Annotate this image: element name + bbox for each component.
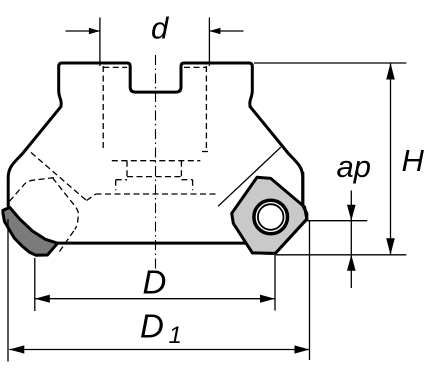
H dimension line [390,63,392,255]
svg-text:ap: ap [337,149,371,184]
left hidden insert top and upper-left edges [9,178,55,203]
recess step tick left [116,179,127,181]
insert screw hole outer ring [254,200,288,234]
bore hidden line left [102,66,104,148]
svg-text:1: 1 [169,322,182,349]
d arrowhead right [209,28,220,35]
left insert (dark, edge view) [3,207,58,255]
recess step hidden outline row2 [127,176,181,178]
H arrowhead bottom [386,238,395,255]
D1 arrowhead right [295,345,310,353]
recess step hidden outline row1 [112,160,201,162]
D1 arrowhead left [9,345,24,353]
d dimension line left [66,30,100,32]
recess step tick right [181,179,192,181]
D arrowhead left [35,295,50,303]
svg-text:D: D [143,264,167,301]
d extension line left [99,18,101,67]
H top reference line [254,62,406,64]
D1 extension line left [7,219,9,362]
D dimension line [35,298,275,300]
right pocket seat line [218,147,281,206]
center line [155,55,157,270]
right insert (square insert with hole) [232,177,307,253]
bore hidden line right [205,66,207,152]
svg-text:D: D [140,308,164,345]
D1 extension line right [309,221,311,360]
recess bottom hidden line [96,193,216,195]
ap arrowhead down [347,205,356,221]
counterbore ledge hidden line right [184,66,206,68]
left pocket seat hidden line [31,153,87,201]
d arrowhead left [89,28,100,35]
D arrowhead right [260,295,275,303]
ap arrowhead up [347,255,356,271]
milling cutter body fill [8,63,307,253]
D extension line right [274,255,276,311]
counterbore ledge hidden line left [103,66,127,68]
left hidden insert upper-right edge and corner flat [53,178,79,230]
recess outer vertical left [115,180,117,191]
recess outer vertical right [192,180,194,191]
insert screw hole inner ring [258,204,284,230]
D extension line left [34,258,36,311]
left pocket gullet jog [87,194,96,200]
body right edge over insert [303,172,307,214]
recess step vertical right [180,161,182,177]
bore jog tick [202,151,209,153]
d extension line right [208,18,210,67]
svg-text:d: d [151,11,170,46]
bottom reference line [276,254,406,256]
ap dimension line [350,191,352,289]
milling cutter body outline [8,63,307,253]
D1 dimension line [9,349,309,351]
left hidden insert lower-right edge [60,229,75,251]
recess step vertical left [126,161,128,177]
svg-text:H: H [402,143,425,178]
ap top reference line [307,220,367,222]
d dimension line right [209,30,243,32]
H arrowhead top [386,63,395,80]
